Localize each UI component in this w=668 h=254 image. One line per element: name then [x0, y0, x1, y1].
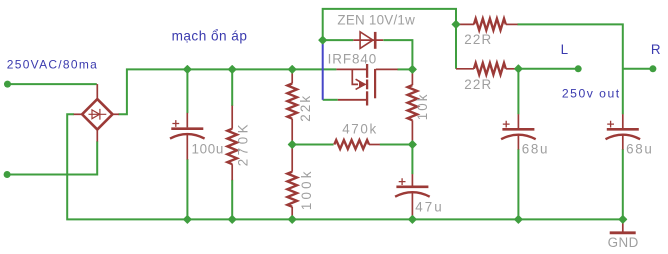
wire zener top loop [323, 9, 456, 40]
wire R output branch [623, 68, 653, 70]
svg-text:R: R [651, 42, 661, 57]
junction ground bus / 47u [409, 216, 417, 224]
wire bridge+ to top supply bus [119, 69, 337, 114]
node L endpoint [575, 65, 582, 72]
junction ground bus / 100k [288, 216, 296, 224]
wire AC input top [8, 83, 97, 85]
junction ground bus / GND [619, 216, 627, 224]
wire 22R pair left vertical [455, 24, 457, 68]
svg-text:470k: 470k [342, 122, 376, 137]
zener diode ZEN 10V/1w [353, 32, 383, 49]
svg-text:250v out: 250v out [562, 87, 620, 101]
svg-text:100u: 100u [192, 141, 224, 156]
svg-text:250VAC/80ma: 250VAC/80ma [7, 57, 97, 71]
capacitor 100u [170, 113, 205, 160]
junction top bus / 270K [228, 66, 236, 74]
node R endpoint [649, 65, 656, 72]
capacitor 68u R [606, 114, 641, 149]
wire 68uL bottom lead [517, 149, 519, 219]
svg-text:IRF840: IRF840 [328, 51, 377, 66]
wire upper 22R out to right column [517, 24, 622, 114]
capacitor 47u [395, 174, 430, 216]
svg-text:270K: 270K [235, 124, 250, 166]
capacitor 68u L [501, 114, 536, 149]
junction top bus / 22k [288, 66, 296, 74]
mosfet IRF840 [336, 64, 397, 106]
wire AC input bottom [7, 141, 97, 174]
wire 68uR bottom lead [622, 149, 624, 219]
wire node to 47u [411, 145, 413, 175]
wire 47u bottom lead [411, 216, 413, 219]
junction L output node [515, 65, 523, 73]
wire source to node S [397, 68, 412, 70]
wire L output [518, 68, 578, 70]
svg-text:GND: GND [608, 235, 639, 250]
svg-text:68u: 68u [626, 141, 652, 156]
resistor 270K [227, 106, 237, 181]
junction divider node (10k/470k/47u) [409, 141, 417, 149]
svg-text:22k: 22k [298, 96, 313, 122]
bridge rectifier B1 [74, 84, 119, 141]
junction ground bus / 68uL [515, 216, 523, 224]
wire 100u bottom lead [186, 159, 188, 219]
node AC input bottom endpoint [4, 171, 11, 178]
wire bridge- to ground bus [67, 114, 623, 219]
svg-text:L: L [561, 42, 568, 57]
wire divider to 470k left [292, 144, 333, 146]
svg-text:22R: 22R [464, 32, 491, 47]
wire 270K top lead [231, 69, 233, 106]
junction zener anode node [319, 36, 327, 44]
wire 270K bottom lead [231, 180, 233, 220]
svg-text:47u: 47u [415, 200, 441, 215]
junction ground bus / 100u [184, 216, 192, 224]
junction node S (source/10k/zener) [409, 66, 417, 74]
junction top bus / 100u [184, 66, 192, 74]
junction ground bus / 270K [228, 216, 236, 224]
svg-text:22R: 22R [464, 77, 491, 92]
svg-text:68u: 68u [522, 141, 548, 156]
resistor 22k [287, 69, 297, 144]
resistor 100k [287, 145, 297, 220]
wire 100u top lead [186, 69, 188, 113]
resistor 10k [408, 69, 418, 144]
svg-text:10k: 10k [415, 94, 430, 120]
svg-text:mạch ổn áp: mạch ổn áp [172, 28, 247, 43]
wire zener cathode to node S [383, 40, 412, 69]
junction 22R pair input [452, 21, 460, 29]
wire gate stub [323, 99, 338, 101]
resistor 22R lower [456, 63, 518, 75]
junction 22k/100k/470k [288, 141, 296, 149]
wire zener anode [323, 39, 354, 41]
wire gate net (blue) [322, 40, 324, 100]
resistor 22R upper [456, 19, 518, 31]
ground GND [610, 219, 636, 232]
node AC input top endpoint [4, 81, 11, 88]
resistor 470k [334, 140, 380, 149]
svg-text:100k: 100k [299, 171, 314, 210]
wire 470k right to node [380, 144, 413, 146]
wire 68uL top lead [517, 69, 519, 115]
svg-text:ZEN 10V/1w: ZEN 10V/1w [337, 12, 415, 27]
